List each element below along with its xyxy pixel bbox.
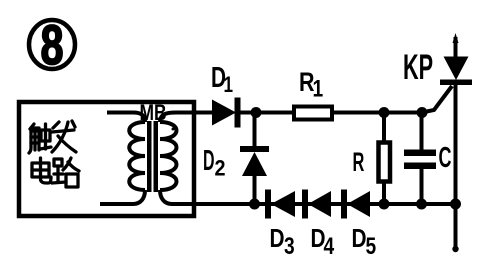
svg-text:R: R (353, 147, 365, 177)
svg-text:2: 2 (215, 157, 226, 181)
svg-text:C: C (439, 142, 452, 174)
svg-text:5: 5 (366, 232, 377, 260)
svg-text:8: 8 (40, 14, 63, 77)
svg-text:D: D (352, 224, 367, 253)
svg-text:4: 4 (324, 232, 335, 260)
svg-text:KP: KP (403, 49, 433, 87)
svg-text:MB: MB (140, 101, 167, 125)
svg-text:1: 1 (224, 73, 234, 98)
svg-text:3: 3 (284, 232, 295, 260)
svg-text:D: D (270, 224, 285, 253)
svg-text:D: D (203, 144, 215, 176)
svg-text:1: 1 (313, 74, 324, 102)
